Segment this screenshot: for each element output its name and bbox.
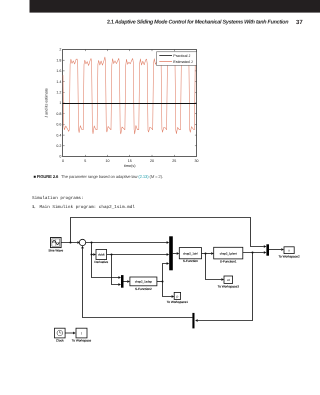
junction dot e-branch bbox=[91, 242, 93, 244]
wire adap down to To Workspace1 bbox=[163, 282, 172, 297]
To Workspace3 block ut bbox=[218, 276, 240, 288]
wire mux2 to adap bbox=[124, 281, 128, 283]
wire clock to t bbox=[65, 332, 73, 334]
arrow into To Workspace1 bbox=[172, 295, 175, 298]
svg-text:1.: 1. bbox=[32, 204, 35, 209]
svg-text:0.6: 0.6 bbox=[56, 123, 61, 127]
svg-text:S-Function: S-Function bbox=[183, 259, 198, 263]
wire adap up to mux1 bbox=[163, 264, 167, 282]
svg-text:0.8: 0.8 bbox=[56, 112, 61, 116]
svg-text:chap2_1ctrl: chap2_1ctrl bbox=[183, 251, 198, 255]
x tick labels bbox=[62, 159, 199, 163]
clock block bbox=[55, 328, 66, 342]
arrow mux1 in de bbox=[167, 253, 170, 256]
wire e branch down to mux2 bbox=[92, 255, 119, 278]
arrow into To Workspace2 bbox=[281, 248, 284, 251]
wire mux4 to To Workspace2 bbox=[269, 249, 281, 251]
svg-text:Sine Wave: Sine Wave bbox=[48, 249, 63, 253]
arrow mux1 in e bbox=[167, 241, 170, 244]
demux bbox=[192, 313, 194, 329]
svg-text:Practical J: Practical J bbox=[173, 54, 190, 58]
wire sine to sum bbox=[61, 242, 77, 244]
x ticks bbox=[85, 50, 174, 157]
arrow mux4 in x bbox=[264, 251, 267, 254]
mux1 bbox=[169, 236, 173, 270]
sine wave block bbox=[48, 238, 63, 253]
svg-text:30: 30 bbox=[195, 159, 199, 163]
svg-text:Derivative: Derivative bbox=[94, 260, 108, 264]
svg-text:1.2: 1.2 bbox=[56, 91, 61, 95]
junction dot e to adap bbox=[91, 254, 93, 256]
legend box bbox=[157, 52, 197, 66]
svg-text:2.1 Adaptive Sliding Mode Cont: 2.1 Adaptive Sliding Mode Control for Me… bbox=[107, 19, 289, 25]
To Workspace2 block x bbox=[278, 247, 300, 259]
svg-text:0.4: 0.4 bbox=[56, 133, 61, 137]
svg-text:0.2: 0.2 bbox=[56, 144, 61, 148]
svg-text:1.6: 1.6 bbox=[56, 69, 61, 73]
estimated J curve (salmon square wave) bbox=[63, 57, 196, 134]
sum junction circle bbox=[79, 239, 85, 245]
arrow into sum bbox=[77, 241, 80, 244]
svg-text:Simulation programs:: Simulation programs: bbox=[32, 195, 84, 201]
junction dot adap out bbox=[162, 281, 164, 283]
wire derivative out to mux1 bbox=[107, 254, 167, 256]
To Workspace block t bbox=[72, 328, 92, 342]
arrow into ctrl bbox=[177, 252, 180, 255]
wire mux1 to ctrl bbox=[173, 253, 177, 255]
svg-text:To Workspace3: To Workspace3 bbox=[218, 284, 240, 288]
svg-text:ut: ut bbox=[227, 278, 230, 282]
svg-text:time(s): time(s) bbox=[124, 164, 136, 168]
wire plant out to mux4 bbox=[243, 252, 264, 254]
svg-text:5: 5 bbox=[84, 159, 86, 163]
svg-text:p: p bbox=[176, 294, 178, 298]
svg-text:To Workspace1: To Workspace1 bbox=[167, 300, 189, 304]
legend entry practical bbox=[159, 55, 172, 57]
arrow mux1 in p bbox=[167, 262, 170, 265]
practical J line bbox=[63, 103, 197, 105]
svg-text:0: 0 bbox=[62, 159, 64, 163]
wire e branch down to derivative bbox=[92, 243, 94, 255]
ctrl S-Function block bbox=[179, 248, 201, 264]
arrow into To Workspace3 bbox=[221, 278, 224, 281]
wire feedback down from plant output bbox=[198, 253, 253, 321]
svg-text:chap2_1plant: chap2_1plant bbox=[220, 251, 237, 255]
wire ut branch down to To Workspace3 bbox=[206, 254, 222, 280]
wire r branch up and top line to right bbox=[71, 218, 264, 247]
svg-text:t: t bbox=[81, 331, 82, 335]
svg-text:20: 20 bbox=[150, 159, 154, 163]
svg-text:chap2_1adap: chap2_1adap bbox=[135, 280, 152, 284]
wire adap out to junction bbox=[157, 281, 163, 283]
svg-text:S-Function2: S-Function2 bbox=[135, 287, 152, 291]
junction dot r-branch bbox=[70, 242, 72, 244]
svg-text:J and its estimate: J and its estimate bbox=[45, 88, 49, 118]
arrow mux4 in r bbox=[264, 245, 267, 248]
wire demux out left and up to sum bbox=[83, 248, 193, 317]
arrow into demux bbox=[195, 319, 198, 322]
svg-text:25: 25 bbox=[172, 159, 176, 163]
svg-text:1.8: 1.8 bbox=[56, 58, 61, 62]
junction dot ut bbox=[205, 253, 207, 255]
derivative block bbox=[94, 250, 108, 265]
legend entry estimated bbox=[159, 61, 172, 63]
y tick labels bbox=[56, 48, 61, 159]
arrow into t bbox=[73, 332, 76, 335]
To Workspace1 block p bbox=[167, 292, 189, 304]
svg-text:du/dt: du/dt bbox=[98, 253, 104, 257]
arrow up into sum bbox=[81, 246, 84, 249]
plot box bbox=[63, 50, 197, 157]
mux2 bbox=[121, 275, 124, 288]
svg-text:2: 2 bbox=[59, 48, 61, 52]
arrow mux2 in e bbox=[118, 276, 121, 279]
adap S-Function2 block bbox=[130, 277, 157, 291]
junction dot de to adap bbox=[111, 254, 113, 256]
junction dot plant out bbox=[252, 252, 254, 254]
svg-text:15: 15 bbox=[128, 159, 132, 163]
wire de branch down to mux2 bbox=[112, 255, 119, 285]
plant S-Function1 block bbox=[214, 247, 243, 263]
svg-text:To Workspace: To Workspace bbox=[72, 338, 92, 342]
svg-text:■ FIGURE 2.6 The parameter ran: ■ FIGURE 2.6 The parameter range based o… bbox=[34, 174, 164, 179]
svg-text:10: 10 bbox=[106, 159, 110, 163]
svg-text:1.4: 1.4 bbox=[56, 80, 61, 84]
wire sum to mux1 bbox=[86, 242, 167, 244]
svg-text:S-Function1: S-Function1 bbox=[220, 260, 237, 264]
arrow into derivative bbox=[93, 253, 96, 256]
mux4 bbox=[266, 244, 269, 255]
arrow into adap bbox=[127, 280, 130, 283]
y ticks bbox=[63, 60, 197, 146]
arrow into plant bbox=[211, 252, 214, 255]
svg-text:1: 1 bbox=[59, 101, 61, 105]
svg-text:Clock: Clock bbox=[56, 338, 64, 342]
svg-text:37: 37 bbox=[296, 19, 303, 26]
svg-text:Main Simulink program: chap2_1: Main Simulink program: chap2_1sim.mdl bbox=[40, 204, 136, 210]
wire ctrl to plant bbox=[202, 253, 212, 255]
header black bar bbox=[30, 0, 320, 13]
svg-text:Estimated J: Estimated J bbox=[173, 60, 192, 64]
svg-text:To Workspace2: To Workspace2 bbox=[278, 254, 300, 258]
arrow mux2 in de bbox=[118, 283, 121, 286]
